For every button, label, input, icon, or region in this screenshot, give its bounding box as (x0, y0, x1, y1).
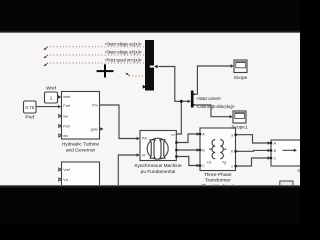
gate unconnected output stub (100, 127, 103, 131)
wire transformer c to load C (236, 158, 269, 166)
svg-text:dw: dw (63, 134, 68, 138)
svg-text:b: b (231, 149, 233, 153)
transformer conserving ports (199, 133, 201, 135)
wire small bus out2 to Scope1 (194, 105, 231, 117)
svg-text:gate: gate (91, 128, 98, 132)
svg-text:wref: wref (63, 95, 71, 99)
svg-text:Vref: Vref (63, 168, 71, 172)
wire machine C to transformer C (176, 157, 197, 166)
svg-text:<Stator voltage vq (pu)>: <Stator voltage vq (pu)> (105, 41, 143, 46)
wire Excitation Vf to Machine Vf (118, 155, 137, 186)
svg-text:Pm: Pm (92, 104, 98, 108)
bottom letterbox bar (0, 185, 300, 225)
wire transformer a to load A (236, 135, 269, 143)
svg-text:0.75: 0.75 (25, 105, 34, 110)
wire Pref const to HTG Pref (36, 106, 58, 108)
block Synchronous Machine (140, 131, 176, 161)
svg-text:Pe0: Pe0 (63, 125, 70, 129)
svg-text:Synchronous Machine: Synchronous Machine (134, 163, 182, 169)
wire junction to small bus selector (181, 100, 188, 102)
block Scope1 (233, 111, 246, 123)
svg-text:<Stator voltage vd (pu)>: <Stator voltage vd (pu)> (105, 50, 143, 55)
svg-text:Vd: Vd (63, 178, 68, 182)
svg-text:D1: D1 (207, 161, 212, 165)
wire HTG Pm to Machine Pm (100, 105, 138, 139)
big bus selector (145, 40, 154, 91)
svg-text:Yg: Yg (222, 161, 226, 165)
constant block Wref (45, 92, 58, 103)
svg-text:B1: B1 (297, 168, 300, 173)
small bus selector (191, 91, 194, 108)
constant block 0.75 (Pref) (24, 101, 37, 113)
block Hydraulic Turbine and Governor (62, 92, 100, 140)
wire transformer b to load B (236, 149, 269, 152)
svg-text:c: c (231, 165, 233, 169)
wire small bus out1 to Scope (194, 66, 231, 94)
block Three-Phase Transformer (200, 128, 236, 171)
svg-text:C: C (202, 164, 205, 168)
svg-text:we: we (63, 115, 68, 119)
top letterbox bar (0, 0, 300, 33)
svg-text:and Governor: and Governor (66, 147, 96, 153)
transformer winding coils (212, 140, 215, 159)
svg-text:Pref: Pref (63, 104, 71, 108)
svg-text:<Rotor speed wm (pu)>: <Rotor speed wm (pu)> (105, 58, 143, 63)
svg-text:Three-Phase: Three-Phase (204, 172, 232, 178)
svg-text:pu Fundamental: pu Fundamental (141, 169, 176, 175)
svg-text:Pref: Pref (25, 115, 34, 121)
svg-text:Pm: Pm (142, 137, 148, 141)
svg-text:Scope: Scope (234, 75, 248, 81)
block Scope (234, 60, 247, 73)
unconnected input stubs we Pe0 dw (59, 115, 62, 118)
block three-phase load B1 (clipped at right) (271, 140, 303, 166)
junction node (180, 100, 183, 103)
dashed signal output 4 (129, 75, 146, 77)
svg-text:Hydraulic Turbine: Hydraulic Turbine (62, 142, 100, 148)
partial block bottom right (280, 181, 293, 189)
svg-text:C: C (274, 157, 277, 161)
wire Wref const to HTG wref (58, 96, 60, 98)
wire machine B to transformer B (176, 149, 197, 151)
block Excitation System (partially hidden) (62, 162, 100, 192)
dashed signal Stator voltage vd (47, 54, 146, 56)
svg-text:m: m (172, 133, 175, 137)
wire machine A to transformer A (176, 134, 197, 143)
wire machine m up to junction (176, 101, 181, 134)
machine conserving ports A B C (175, 141, 177, 143)
mouse crosshair cursor (97, 70, 114, 72)
wire junction to big bus selector (159, 67, 182, 102)
svg-text:Transformer: Transformer (205, 178, 231, 184)
dashed signal Rotor speed wm (47, 62, 146, 64)
dashed signal Stator voltage vq (47, 46, 146, 48)
svg-text:<Load angle delta (deg)>: <Load angle delta (deg)> (196, 104, 235, 109)
svg-text:<Stator current>: <Stator current> (196, 96, 222, 101)
svg-text:Scope1: Scope1 (231, 124, 248, 130)
svg-text:1: 1 (50, 95, 53, 100)
bus selector output5 stub arrow (143, 85, 147, 89)
svg-text:Wref: Wref (46, 86, 57, 92)
